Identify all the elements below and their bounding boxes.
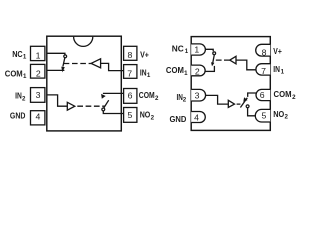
dashed control line S3 to driver A3 [216,59,230,61]
svg-text:NO: NO [273,109,284,119]
label NC1 (pin 1, U2) [172,44,189,56]
svg-text:6: 6 [128,90,133,100]
pin 6 bubble [256,89,270,100]
switch S1 pole arrowhead [61,67,65,73]
label COM2 (pin 6, U2) [274,89,297,101]
svg-text:NC: NC [172,44,184,54]
svg-text:NO: NO [140,110,151,120]
dashed control line A2 to switch S2 [77,105,104,107]
pin 1 box [31,46,45,60]
svg-text:2: 2 [155,95,159,102]
switch S1 blade (closed) [63,58,65,67]
switch S3 pole stub [213,66,215,72]
svg-text:V+: V+ [273,46,282,56]
label COM2 (pin 6) [139,90,159,102]
pin 4 box [31,111,45,125]
dashed control line A4 to switch S4 [237,103,243,105]
driver triangle A4 (IN2 buffer, U2) [228,100,234,107]
svg-text:NC: NC [12,49,23,59]
svg-text:3: 3 [195,90,200,100]
label IN1 (pin 7, U2) [273,64,284,76]
label IN1 (pin 7) [140,67,151,79]
svg-text:1: 1 [185,48,189,55]
driver triangle A3 (IN1 buffer, U2) [230,56,236,64]
svg-text:COM: COM [166,65,184,75]
svg-text:1: 1 [23,54,27,61]
switch S3 pole arrowhead [211,62,214,66]
pin 7 box [124,65,137,79]
svg-text:1: 1 [147,72,151,79]
wire pin2 (COM1) to switch S1 pole [47,69,65,71]
wire switch S4 contact to pin 5 (NO2) [248,108,256,116]
pin 8 bubble [256,44,271,56]
pin 5 bubble [255,109,270,122]
wire pin3 (IN2) to driver A4 [205,95,228,104]
wire driver A3 to pin 7 (IN1) [236,60,256,70]
svg-text:7: 7 [261,66,266,76]
svg-text:2: 2 [195,66,200,76]
svg-text:6: 6 [260,90,265,100]
switch S2 blade (open) [104,100,109,108]
svg-text:3: 3 [36,90,41,100]
wire pin6 (COM2) to switch S4 pole [248,93,256,97]
switch S2 pole arrowhead [101,94,106,99]
switch S1 NC contact circle [64,55,67,58]
svg-text:1: 1 [281,69,285,76]
label IN2 (pin 3) [15,91,26,103]
svg-text:COM: COM [139,90,155,100]
label COM1 (pin 2, U2) [166,65,188,77]
svg-text:2: 2 [285,114,289,121]
pin 6 box [124,89,137,104]
svg-text:5: 5 [127,110,132,120]
switch S3 NC contact circle [213,52,216,55]
svg-text:COM: COM [5,69,23,79]
svg-text:4: 4 [35,112,40,122]
pin 4 bubble [191,112,205,123]
pin-1 index notch [74,37,93,47]
wire switch S2 contact to pin 5 (NO2) [103,111,123,114]
svg-text:IN: IN [15,91,22,101]
wire pin1 (NC1) to switch S1 contact [47,53,65,54]
svg-text:2: 2 [183,97,187,104]
svg-text:IN: IN [140,67,147,77]
wire pin2 (COM1) to switch S3 pole [205,70,215,72]
pin 3 bubble [191,89,205,101]
svg-text:V+: V+ [140,49,149,59]
wire pin3 (IN2) to driver A2 [47,95,68,106]
svg-text:GND: GND [10,110,26,120]
label NC1 (pin 1) [12,49,27,61]
svg-text:1: 1 [36,50,41,60]
svg-text:2: 2 [22,95,26,102]
label NO2 (pin 5, U2) [273,109,288,121]
pin 1 bubble [191,44,205,55]
IC body U1 [47,36,122,131]
switch S4 blade (open) [240,98,247,108]
svg-text:COM: COM [274,89,292,99]
svg-text:1: 1 [194,45,199,55]
svg-text:5: 5 [261,110,266,120]
dashed control line S1 to driver A1 [64,63,91,65]
pin 7 bubble [256,64,270,75]
driver triangle A1 (IN1 buffer) [91,59,101,68]
switch S4 NO contact circle [246,105,249,108]
svg-text:8: 8 [262,47,267,57]
label COM1 (pin 2) [5,69,27,81]
driver triangle A2 (IN2 buffer) [67,102,75,110]
label NO2 (pin 5) [140,110,155,122]
svg-text:1: 1 [184,70,188,77]
switch S4 pole arrowhead [243,97,247,102]
pin 5 box [124,108,137,123]
pin 2 box [31,64,45,78]
svg-text:2: 2 [151,114,155,121]
svg-text:8: 8 [127,50,132,60]
pin 2 bubble [191,65,205,76]
svg-text:GND: GND [170,114,187,124]
pin 3 box [31,88,45,103]
switch S3 blade (closed) [213,55,215,63]
svg-text:7: 7 [127,68,132,78]
pin 8 box [124,46,137,60]
switch S2 NO contact circle [102,108,105,111]
svg-text:1: 1 [23,73,27,80]
wire driver A1 to pin 7 (IN1) [101,63,124,70]
svg-text:2: 2 [36,68,41,78]
IC body U2 [191,37,270,131]
label IN2 (pin 3, U2) [177,92,187,104]
svg-text:4: 4 [194,112,199,122]
wire switch S2 pole to pin 6 (COM2) [103,92,124,94]
svg-text:2: 2 [292,94,296,101]
svg-text:IN: IN [273,64,280,74]
wire pin1 (NC1) to switch S3 contact [205,49,213,51]
